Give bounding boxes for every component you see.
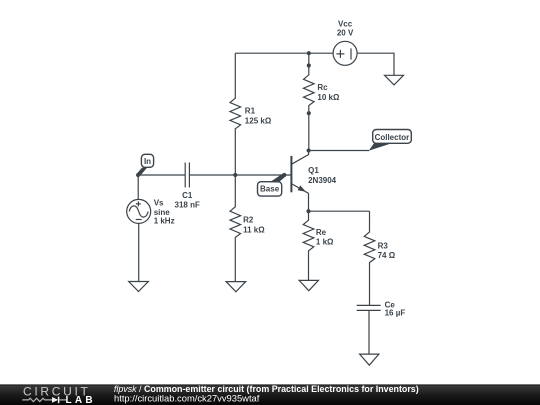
wire Vs to ground <box>138 223 140 281</box>
voltage source Vcc <box>333 20 357 66</box>
resistor R1 <box>230 53 272 175</box>
node R1 R2 junction <box>233 173 237 177</box>
svg-text:16 µF: 16 µF <box>385 309 406 318</box>
capacitor C1 <box>175 163 200 210</box>
resistor Rc <box>304 66 340 114</box>
svg-text:2N3904: 2N3904 <box>308 176 337 185</box>
svg-text:Collector: Collector <box>375 133 410 142</box>
node emitter junction <box>306 209 310 213</box>
transistor Q1 <box>291 151 336 212</box>
flag label Base <box>258 173 286 196</box>
svg-text:R3: R3 <box>378 241 389 250</box>
svg-text:In: In <box>144 157 151 166</box>
svg-text:Re: Re <box>316 228 327 237</box>
node Rc bottom terminal <box>307 111 311 115</box>
svg-text:http://circuitlab.com/ck27vv93: http://circuitlab.com/ck27vv935wtaf <box>114 393 260 404</box>
wire Ce to ground <box>368 310 370 354</box>
wire Rc to collector <box>308 113 310 150</box>
wire emitter to R3 branch <box>309 210 370 212</box>
node base terminal <box>282 173 286 177</box>
wire base rail left of C1 <box>138 174 185 176</box>
ground near Vcc <box>385 75 404 85</box>
node Rc top terminal <box>307 63 311 67</box>
node collector junction <box>307 148 311 152</box>
capacitor Ce <box>357 301 406 318</box>
footer bar <box>0 384 540 405</box>
wire junction down to Rc <box>308 53 310 65</box>
svg-text:74 Ω: 74 Ω <box>378 251 396 260</box>
wire top rail from R1 to Vcc <box>235 52 333 54</box>
svg-text:1 kΩ: 1 kΩ <box>316 238 334 247</box>
svg-text:20 V: 20 V <box>337 29 354 38</box>
svg-text:Vcc: Vcc <box>338 20 353 29</box>
wire collector <box>309 150 369 152</box>
resistor R3 <box>364 211 396 305</box>
svg-text:Rc: Rc <box>317 83 328 92</box>
voltage source Vs <box>127 175 175 226</box>
svg-text:10 kΩ: 10 kΩ <box>317 93 340 102</box>
wire Vcc to ground corner <box>357 53 394 75</box>
svg-text:318 nF: 318 nF <box>175 200 200 209</box>
svg-text:1 kHz: 1 kHz <box>154 217 175 226</box>
svg-text:11 kΩ: 11 kΩ <box>243 226 265 235</box>
node top junction <box>307 51 311 55</box>
ground under Ce <box>360 354 379 365</box>
ground under Re <box>299 280 318 290</box>
svg-text:sine: sine <box>154 208 171 217</box>
ground under Vs <box>129 282 149 292</box>
resistor Re <box>303 211 334 280</box>
svg-text:125 kΩ: 125 kΩ <box>245 116 272 125</box>
svg-text:Base: Base <box>260 185 280 194</box>
wire base rail right of C1 <box>189 174 290 176</box>
footer logo resistor + diode symbols <box>22 397 66 404</box>
svg-text:R1: R1 <box>245 106 256 115</box>
svg-text:R2: R2 <box>243 216 254 225</box>
svg-text:Q1: Q1 <box>308 166 319 175</box>
flag label Collector <box>369 130 412 151</box>
svg-text:LAB: LAB <box>66 395 96 405</box>
node In junction <box>136 173 140 177</box>
svg-text:C1: C1 <box>182 191 193 200</box>
svg-text:Vs: Vs <box>154 199 164 208</box>
resistor R2 <box>230 175 265 282</box>
ground under R2 <box>226 282 246 292</box>
flag label In <box>137 154 154 176</box>
